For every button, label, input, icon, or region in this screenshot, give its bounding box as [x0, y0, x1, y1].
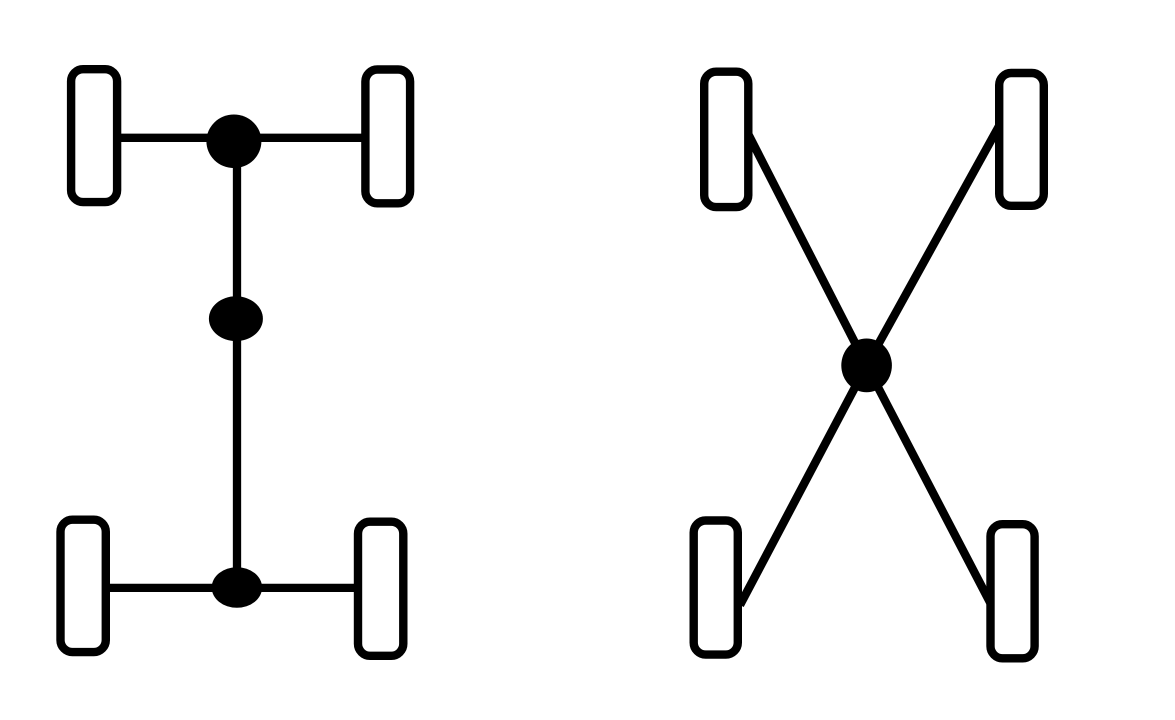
wheel rear-right (right diagram): [991, 524, 1035, 658]
wheel rear-right (left diagram): [358, 522, 403, 656]
wire: diagonal to front-left wheel (right diagram): [749, 135, 867, 366]
node: front differential (left diagram): [206, 115, 261, 169]
wire: diagonal to rear-right wheel (right diagram): [867, 365, 992, 605]
wheel rear-left (right diagram): [694, 521, 738, 655]
wire: driveshaft (left diagram): [233, 139, 241, 589]
wheel front-right (left diagram): [365, 70, 410, 204]
wire: rear axle (left diagram): [104, 584, 360, 592]
wheel front-right (right diagram): [999, 73, 1044, 206]
wheel front-left (right diagram): [704, 72, 748, 207]
wire: front axle (left diagram): [117, 134, 364, 142]
wire: diagonal to rear-left wheel (right diagram): [740, 365, 867, 605]
wheel rear-left (left diagram): [61, 520, 106, 652]
wheel front-left (left diagram): [71, 69, 117, 202]
node: central coupling (right diagram): [841, 339, 892, 393]
node: rear differential (left diagram): [212, 567, 262, 608]
node: center coupling (left diagram): [209, 296, 263, 341]
wire: diagonal to front-right wheel (right diagram): [867, 124, 1000, 365]
